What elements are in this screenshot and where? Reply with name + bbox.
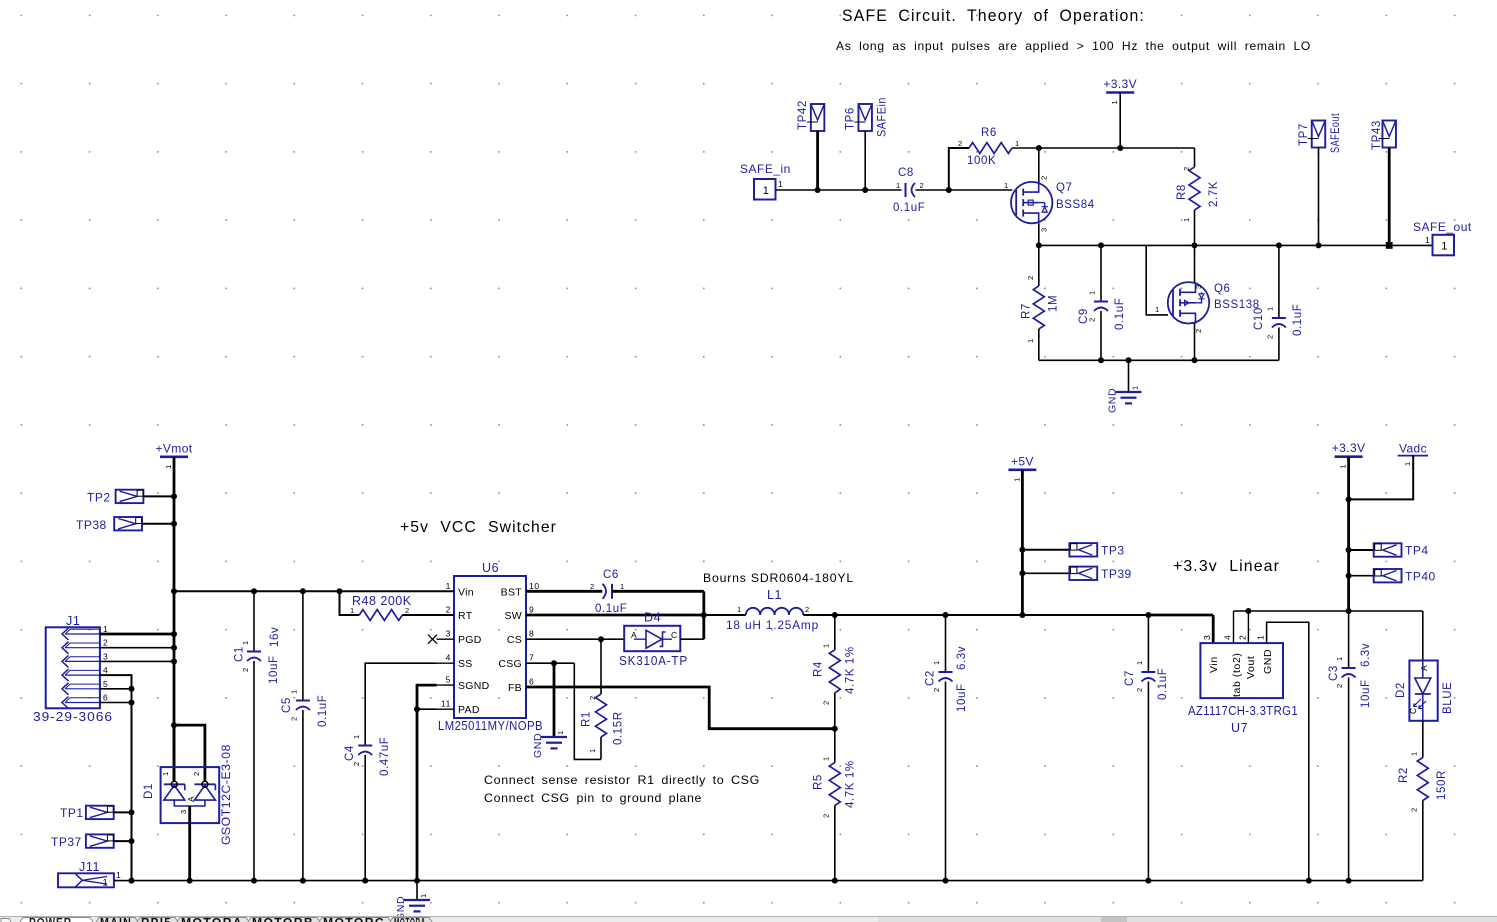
no-connect X on PGD: [428, 635, 437, 644]
svg-text:2: 2: [1135, 687, 1144, 692]
U7 pin 2 Vout: [1247, 611, 1249, 643]
wire BST: [526, 590, 602, 593]
U6 pin 4 SS: [437, 662, 455, 664]
svg-text:TP2: TP2: [87, 491, 111, 505]
svg-text:2: 2: [1182, 166, 1191, 171]
svg-text:6: 6: [103, 693, 108, 703]
J1 pin 6: [62, 697, 69, 709]
junction: [1346, 547, 1352, 553]
svg-text:1: 1: [1131, 385, 1140, 390]
wire bottom rail: [132, 880, 1423, 882]
svg-text:CS: CS: [507, 634, 522, 646]
wire: [916, 189, 1013, 191]
junction: [551, 660, 557, 666]
transistor Q7: [1011, 182, 1052, 223]
svg-text:SK310A-TP: SK310A-TP: [619, 654, 688, 668]
svg-text:10uF: 10uF: [956, 683, 968, 712]
wire J1 pin2: [100, 647, 174, 649]
junction: [129, 838, 135, 844]
svg-text:2: 2: [1410, 807, 1419, 812]
svg-text:1: 1: [103, 624, 108, 634]
junction: [815, 187, 821, 193]
J1 pin 2: [62, 642, 69, 654]
svg-text:1: 1: [556, 730, 565, 735]
svg-text:1: 1: [103, 878, 109, 889]
svg-text:GSOT12C-E3-08: GSOT12C-E3-08: [221, 744, 233, 845]
svg-text:2: 2: [1040, 175, 1049, 180]
svg-text:Vadc: Vadc: [1399, 441, 1427, 455]
wire J1 pin1: [100, 633, 174, 636]
wire SS to C4: [365, 663, 436, 745]
IC U7 AZ1117: [1200, 643, 1283, 698]
svg-text:10uF: 10uF: [268, 655, 280, 684]
U6 pin 5 SGND: [437, 684, 455, 686]
svg-text:Bourns SDR0604-180YL: Bourns SDR0604-180YL: [703, 571, 854, 585]
svg-text:0.1uF: 0.1uF: [595, 603, 627, 615]
junction: [1346, 573, 1352, 579]
junction: [1346, 878, 1352, 884]
inductor L1: [746, 608, 804, 615]
svg-text:GND: GND: [532, 733, 544, 758]
power +3.3V: [1106, 91, 1134, 94]
svg-text:R4: R4: [813, 661, 825, 677]
ground GND below rail: [416, 881, 418, 900]
svg-text:R6: R6: [981, 127, 997, 139]
svg-text:SS: SS: [458, 658, 473, 670]
svg-text:Vout: Vout: [1245, 656, 1257, 679]
svg-text:150R: 150R: [1436, 770, 1448, 800]
power +Vmot: [160, 455, 188, 458]
svg-text:tab (to2): tab (to2): [1231, 652, 1243, 697]
svg-text:BST: BST: [501, 586, 523, 598]
wire: [1022, 549, 1069, 551]
svg-text:U6: U6: [482, 561, 499, 575]
svg-text:4.7K 1%: 4.7K 1%: [845, 760, 857, 808]
wire: [949, 148, 969, 190]
svg-text:C8: C8: [898, 167, 914, 179]
junction: [171, 645, 177, 651]
junction: [414, 878, 420, 884]
svg-text:C: C: [1408, 707, 1418, 714]
svg-text:2: 2: [405, 606, 410, 615]
wire Vadc: [1349, 456, 1414, 500]
power +5V: [1008, 468, 1036, 471]
capacitor C5: [302, 591, 304, 700]
svg-text:2: 2: [241, 667, 250, 672]
svg-text:GND: GND: [1262, 649, 1274, 674]
svg-text:1: 1: [241, 640, 250, 645]
junction: [1316, 242, 1322, 248]
svg-text:R2: R2: [1398, 767, 1410, 783]
svg-text:R7: R7: [1021, 303, 1033, 319]
wire D1 pin1: [173, 725, 176, 781]
junction: [832, 878, 838, 884]
svg-text:C10: C10: [1253, 307, 1265, 330]
ground: [541, 736, 567, 738]
wire: [1128, 360, 1130, 392]
svg-text:SAFE Circuit. Theory of Operat: SAFE Circuit. Theory of Operation:: [842, 7, 1145, 25]
svg-text:2: 2: [958, 139, 963, 148]
svg-text:1: 1: [1425, 235, 1430, 245]
junction: [1192, 242, 1198, 248]
svg-text:As long as input pulses are ap: As long as input pulses are applied > 10…: [836, 39, 1311, 53]
svg-text:Vin: Vin: [1208, 656, 1220, 673]
svg-text:SGND: SGND: [458, 680, 490, 692]
testpoint TP43: [1382, 121, 1396, 148]
svg-text:MOTORA: MOTORA: [181, 918, 243, 922]
wire R1 return: [574, 663, 601, 759]
wire D1 pin3: [188, 806, 191, 881]
svg-text:39-29-3066: 39-29-3066: [33, 710, 113, 724]
svg-text:1: 1: [1182, 217, 1191, 222]
svg-text:2: 2: [1266, 334, 1275, 339]
svg-text:2: 2: [588, 695, 597, 700]
svg-text:11: 11: [441, 699, 451, 709]
wire CSG to ground: [553, 663, 556, 737]
svg-text:0.1uF: 0.1uF: [1114, 298, 1126, 330]
svg-text:1: 1: [1155, 305, 1160, 314]
svg-text:1: 1: [588, 748, 597, 753]
svg-text:0.1uF: 0.1uF: [893, 202, 925, 214]
svg-text:2: 2: [822, 813, 831, 818]
junction: [943, 878, 949, 884]
svg-text:2: 2: [1335, 683, 1344, 688]
junction: [171, 493, 177, 499]
wire Vin rail: [174, 590, 454, 592]
svg-text:1: 1: [763, 185, 769, 197]
svg-text:U7: U7: [1231, 721, 1248, 735]
svg-text:5: 5: [446, 675, 451, 685]
junction: [129, 700, 135, 706]
testpoint TP7: [1312, 121, 1326, 148]
svg-text:1: 1: [1441, 241, 1447, 253]
wire: [1012, 147, 1195, 149]
svg-text:1: 1: [1088, 290, 1097, 295]
junction: [129, 686, 135, 692]
wire: [402, 614, 454, 616]
capacitor C6: [603, 584, 607, 599]
junction: [1245, 608, 1251, 614]
svg-text:1: 1: [1266, 306, 1275, 311]
junction: [1145, 878, 1151, 884]
svg-text:5: 5: [103, 679, 108, 689]
svg-text:A: A: [1419, 665, 1429, 671]
wire: [612, 590, 704, 593]
junction: [171, 631, 177, 637]
capacitor C3: [1348, 611, 1350, 668]
svg-text:SAFEin: SAFEin: [877, 97, 889, 137]
wire Vin drop: [1212, 615, 1215, 643]
svg-text:16v: 16v: [269, 627, 281, 647]
wire Q6 gate: [1146, 245, 1168, 315]
wire: [816, 131, 819, 190]
svg-text:CSG: CSG: [498, 658, 522, 670]
wire: [1038, 148, 1040, 182]
testpoint TP1: [86, 806, 114, 819]
capacitor C9: [1100, 245, 1102, 301]
wire: [142, 523, 174, 525]
svg-text:RT: RT: [458, 610, 473, 622]
wire: [1318, 148, 1320, 246]
svg-text:J1: J1: [66, 614, 80, 628]
svg-text:D2: D2: [1395, 682, 1407, 698]
svg-text:2: 2: [805, 605, 810, 614]
svg-text:1: 1: [1335, 656, 1344, 661]
wire R48 drop: [340, 591, 360, 615]
svg-text:+3.3V: +3.3V: [1103, 77, 1137, 91]
svg-text:GND: GND: [1107, 388, 1119, 413]
wire: [704, 614, 746, 616]
capacitor C8: [905, 183, 907, 197]
svg-text:BLUE: BLUE: [1442, 682, 1454, 714]
IC U6 LM25011: [454, 576, 526, 718]
svg-text:R5: R5: [813, 774, 825, 790]
svg-text:1: 1: [1015, 139, 1020, 148]
wire +Vmot stem: [173, 457, 176, 782]
svg-text:2: 2: [920, 181, 925, 190]
svg-text:0.1uF: 0.1uF: [1157, 668, 1169, 700]
svg-text:0.15R: 0.15R: [613, 711, 625, 745]
wire: [702, 591, 705, 639]
svg-text:1: 1: [778, 179, 783, 189]
svg-text:1M: 1M: [1048, 295, 1060, 312]
svg-text:C5: C5: [281, 697, 293, 713]
wire: [144, 495, 174, 497]
svg-text:TP43: TP43: [1371, 120, 1383, 150]
svg-text:MOTORA: MOTORA: [394, 918, 426, 922]
svg-text:3: 3: [1202, 635, 1212, 640]
svg-text:L1: L1: [767, 588, 782, 602]
svg-text:2: 2: [932, 687, 941, 692]
svg-text:2: 2: [352, 761, 361, 766]
junction: [832, 726, 838, 732]
wire output rail: [1039, 244, 1433, 246]
svg-text:2: 2: [590, 582, 595, 591]
svg-text:0.1uF: 0.1uF: [1292, 304, 1304, 336]
svg-text:3: 3: [1194, 284, 1203, 289]
svg-text:+5v VCC Switcher: +5v VCC Switcher: [400, 519, 557, 536]
svg-text:2: 2: [822, 700, 831, 705]
tab bar: [0, 917, 1497, 922]
transistor Q6: [1168, 282, 1209, 323]
wire: [1194, 324, 1196, 361]
svg-text:TP40: TP40: [1405, 570, 1436, 584]
U6 pin 10 BST: [526, 590, 544, 592]
junction: [171, 658, 177, 664]
svg-text:POWER: POWER: [29, 918, 72, 922]
junction: [862, 187, 868, 193]
resistor R6: [969, 143, 1012, 154]
svg-text:TP38: TP38: [76, 518, 107, 532]
wire: [1422, 721, 1424, 758]
svg-text:10uF: 10uF: [1360, 679, 1372, 708]
svg-text:TP7: TP7: [1298, 123, 1310, 146]
wire J1 pin4: [100, 675, 132, 881]
svg-text:2: 2: [103, 638, 108, 648]
wire: [864, 131, 866, 190]
svg-text:18 uH 1.25Amp: 18 uH 1.25Amp: [726, 618, 819, 632]
svg-text:2: 2: [290, 716, 299, 721]
svg-text:3: 3: [1040, 227, 1049, 232]
wire J1 pin3: [100, 660, 174, 662]
U6 pin 8 CS: [526, 638, 544, 640]
svg-text:RPI5: RPI5: [141, 918, 172, 922]
svg-text:+3.3v Linear: +3.3v Linear: [1173, 558, 1280, 575]
junction: [1386, 242, 1393, 249]
U6 pin 9 SW: [526, 614, 544, 616]
wire: [680, 638, 704, 640]
junction: [300, 588, 306, 594]
svg-text:2: 2: [1194, 328, 1203, 333]
svg-text:MOTORB: MOTORB: [252, 918, 314, 922]
capacitor C7: [1147, 615, 1149, 672]
svg-text:7: 7: [529, 653, 534, 663]
testpoint TP6: [858, 104, 872, 131]
svg-text:Connect sense resistor R1 dire: Connect sense resistor R1 directly to CS…: [484, 773, 760, 787]
U6 pin 1 Vin: [437, 590, 455, 592]
svg-text:2: 2: [1088, 317, 1097, 322]
svg-text:C: C: [671, 630, 678, 640]
svg-text:1: 1: [1403, 461, 1412, 466]
wire CS: [526, 638, 624, 640]
svg-text:1: 1: [161, 771, 170, 776]
capacitor C1: [253, 591, 255, 651]
resistor R5: [834, 729, 836, 763]
diode D4 SK310A: [624, 626, 680, 651]
svg-text:1: 1: [290, 689, 299, 694]
junction: [1098, 357, 1104, 363]
wire CSG: [526, 662, 574, 664]
wire: [1349, 549, 1374, 551]
wire: [114, 840, 131, 842]
svg-text:PAD: PAD: [458, 704, 480, 716]
svg-text:6.3v: 6.3v: [1360, 643, 1372, 667]
diode D1 GSOT12C: [161, 767, 220, 823]
junction: [414, 706, 420, 712]
svg-text:6.3v: 6.3v: [956, 646, 968, 670]
U6 pin 3 PGD: [437, 638, 455, 640]
testpoint TP2: [116, 490, 144, 503]
svg-text:LM25011MY/NOPB: LM25011MY/NOPB: [438, 719, 543, 733]
svg-text:1: 1: [737, 605, 742, 614]
testpoint TP4: [1374, 543, 1402, 556]
ground: [1116, 391, 1142, 393]
junction: [1126, 357, 1132, 363]
junction: [251, 878, 257, 884]
testpoint TP40: [1374, 569, 1402, 582]
junction: [1276, 242, 1282, 248]
testpoint TP37: [86, 834, 114, 847]
svg-text:3: 3: [103, 651, 108, 661]
wire FB: [526, 687, 835, 729]
junction: [1117, 145, 1123, 151]
wire to D1 pin2: [174, 725, 205, 781]
svg-text:TP6: TP6: [845, 107, 857, 130]
junction: [337, 588, 343, 594]
svg-text:D1: D1: [143, 783, 155, 799]
U7 pin 4 tab: [1233, 611, 1235, 643]
svg-text:Vin: Vin: [458, 586, 474, 598]
svg-text:C3: C3: [1328, 665, 1340, 681]
svg-text:4: 4: [1223, 635, 1233, 640]
U6 pin 2 RT: [437, 614, 455, 616]
svg-text:R1: R1: [581, 711, 593, 727]
junction: [1019, 570, 1025, 576]
svg-text:BSS84: BSS84: [1056, 199, 1095, 211]
svg-text:6: 6: [529, 677, 534, 687]
svg-text:AZ1117CH-3.3TRG1: AZ1117CH-3.3TRG1: [1188, 704, 1298, 718]
svg-text:TP3: TP3: [1101, 544, 1125, 558]
wire J1 pin5: [100, 688, 132, 690]
svg-text:1: 1: [1012, 477, 1021, 482]
resistor R8: [1194, 148, 1196, 167]
U6 pin 7 CSG: [526, 662, 544, 664]
wire: [1388, 148, 1391, 245]
wire: [1038, 223, 1040, 245]
svg-text:1: 1: [822, 756, 831, 761]
junction: [171, 722, 177, 728]
wire +5V stem: [1021, 470, 1024, 615]
svg-text:1: 1: [350, 606, 355, 615]
svg-text:1: 1: [932, 660, 941, 665]
junction: [946, 187, 952, 193]
svg-text:FB: FB: [508, 682, 522, 694]
svg-text:2: 2: [1026, 275, 1035, 280]
svg-text:MAIN: MAIN: [100, 918, 132, 922]
wire ground rail: [1039, 359, 1279, 361]
wire: [776, 189, 902, 191]
capacitor C4: [358, 745, 372, 747]
junction: [1019, 612, 1025, 618]
wire J1 pin6: [100, 702, 132, 704]
resistor R4: [834, 615, 836, 650]
wire +5V rail: [803, 614, 1148, 616]
port SAFE_in: [754, 179, 776, 200]
LED D2: [1409, 661, 1437, 721]
U6 pin 6 FB: [526, 686, 544, 688]
J1 pin 5: [62, 683, 69, 695]
junction: [129, 809, 135, 815]
svg-text:8: 8: [529, 629, 534, 639]
resistor R7: [1038, 245, 1040, 286]
junction: [300, 878, 306, 884]
junction: [832, 612, 838, 618]
testpoint TP42: [811, 104, 825, 131]
junction: [171, 521, 177, 527]
svg-text:PGD: PGD: [458, 634, 482, 646]
svg-text:0.47uF: 0.47uF: [379, 737, 391, 776]
svg-text:1: 1: [620, 582, 625, 591]
svg-text:SAFE_in: SAFE_in: [740, 162, 791, 176]
svg-text:MOTORC: MOTORC: [323, 918, 385, 922]
svg-text:Q7: Q7: [1056, 182, 1073, 194]
svg-text:TP39: TP39: [1101, 567, 1132, 581]
junction: [251, 588, 257, 594]
junction: [1098, 242, 1104, 248]
testpoint TP38: [114, 517, 142, 530]
capacitor C10: [1278, 245, 1280, 318]
svg-text:C7: C7: [1124, 670, 1136, 686]
svg-text:4: 4: [446, 653, 451, 663]
svg-text:+Vmot: +Vmot: [155, 441, 192, 455]
svg-text:C4: C4: [344, 745, 356, 761]
junction: [1036, 145, 1042, 151]
svg-text:1: 1: [1004, 181, 1009, 190]
svg-text:1: 1: [116, 870, 121, 880]
svg-text:SAFEout: SAFEout: [1330, 113, 1342, 153]
svg-text:4.7K 1%: 4.7K 1%: [845, 646, 857, 694]
svg-text:SAFE_out: SAFE_out: [1413, 220, 1472, 234]
